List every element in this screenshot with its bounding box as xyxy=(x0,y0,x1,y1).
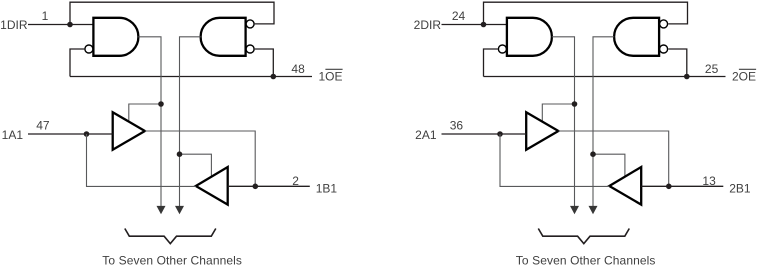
node 2OE junction xyxy=(684,74,690,80)
wire 2OE rail xyxy=(484,76,726,78)
node enable junction on 1U2 output xyxy=(177,151,183,157)
wire gate 1U2 output (enable B-to-A) xyxy=(180,37,201,206)
wire gate 2U1 output (enable A-to-B) xyxy=(552,37,575,206)
wire enable stub to buffer 2G1 xyxy=(542,104,574,122)
svg-text:48: 48 xyxy=(291,62,305,76)
inverter bubble on gate 1U1 OE input xyxy=(85,45,93,53)
wire 1OE to gate 1U1 bubble xyxy=(70,49,84,77)
node enable junction on 1U1 output xyxy=(158,101,164,107)
arrowhead to other channels (right) xyxy=(589,206,598,214)
AND gate 1U2 xyxy=(201,18,246,56)
node 2B1 junction xyxy=(666,184,672,190)
svg-text:13: 13 xyxy=(702,174,716,188)
wire 1DIR input xyxy=(28,24,93,26)
svg-text:2DIR: 2DIR xyxy=(414,18,442,32)
svg-text:To Seven Other Channels: To Seven Other Channels xyxy=(516,253,656,265)
wire 2B1 xyxy=(641,185,723,187)
AND gate 1U1 xyxy=(93,18,138,56)
svg-text:25: 25 xyxy=(705,62,719,76)
buffer 1G1 (A to B) xyxy=(113,112,145,150)
arrowhead to other channels (right) xyxy=(175,206,184,214)
svg-text:2: 2 xyxy=(292,174,299,188)
wire gate 2U2 output (enable B-to-A) xyxy=(593,37,614,206)
wire buffer 1G1 output to 1B1 xyxy=(145,131,255,186)
wire 1A1 input xyxy=(28,133,113,135)
brace (channels 2) xyxy=(538,229,629,244)
buffer 2G1 (A to B) xyxy=(526,112,558,150)
inverter bubble on gate 2U2 OE input xyxy=(660,45,668,53)
wire DIR top rail to gate 1U2 bubble xyxy=(70,2,274,24)
svg-text:1B1: 1B1 xyxy=(316,182,338,196)
svg-text:1DIR: 1DIR xyxy=(0,18,28,32)
brace (channels 1) xyxy=(125,229,216,244)
svg-text:2A1: 2A1 xyxy=(415,128,437,142)
AND gate 2U1 xyxy=(507,18,552,56)
buffer 1G2 (B to A) xyxy=(196,167,228,205)
wire enable stub to buffer 1G2 xyxy=(180,154,212,176)
wire 2OE to gate 2U2 bubble xyxy=(668,49,687,77)
wire buffer 2G2 output to 2A1 xyxy=(500,134,609,186)
svg-text:36: 36 xyxy=(450,119,464,133)
svg-text:To Seven Other Channels: To Seven Other Channels xyxy=(102,253,242,265)
node 1A1 junction xyxy=(84,131,90,137)
svg-text:2B1: 2B1 xyxy=(729,182,751,196)
node enable junction on 2U2 output xyxy=(590,151,596,157)
wire 2A1 input xyxy=(442,133,527,135)
wire 1OE to gate 1U2 bubble xyxy=(255,49,273,77)
wire enable stub to buffer 2G2 xyxy=(593,154,625,176)
wire enable stub to buffer 1G1 xyxy=(129,104,161,122)
node 2DIR junction xyxy=(481,22,487,28)
inverter bubble on gate 2U2 DIR input xyxy=(660,20,668,28)
svg-text:2OE: 2OE xyxy=(732,70,756,84)
AND gate 2U2 xyxy=(614,18,659,56)
node 1B1 junction xyxy=(253,184,259,190)
wire gate 1U1 output (enable A-to-B) xyxy=(138,37,161,206)
buffer 2G2 (B to A) xyxy=(609,167,641,205)
svg-text:1: 1 xyxy=(42,9,49,23)
inverter bubble on gate 1U2 DIR input xyxy=(246,20,254,28)
inverter bubble on gate 2U1 OE input xyxy=(498,45,506,53)
wire buffer 1G2 output to 1A1 xyxy=(87,134,196,186)
wire 2OE to gate 2U1 bubble xyxy=(484,49,498,77)
svg-text:24: 24 xyxy=(452,9,466,23)
arrowhead to other channels (left) xyxy=(157,206,166,214)
node enable junction on 2U1 output xyxy=(572,101,578,107)
node 1OE junction xyxy=(271,74,277,80)
wire 1B1 xyxy=(228,185,310,187)
wire 2DIR input xyxy=(442,24,507,26)
wire 1OE rail xyxy=(70,76,312,78)
svg-text:1A1: 1A1 xyxy=(2,128,24,142)
arrowhead to other channels (left) xyxy=(570,206,579,214)
wire buffer 2G1 output to 2B1 xyxy=(558,131,668,186)
svg-text:47: 47 xyxy=(36,119,50,133)
inverter bubble on gate 1U2 OE input xyxy=(246,45,254,53)
wire DIR top rail to gate 2U2 bubble xyxy=(484,2,688,24)
node 1DIR junction xyxy=(67,22,73,28)
svg-text:1OE: 1OE xyxy=(319,70,343,84)
node 2A1 junction xyxy=(497,131,503,137)
